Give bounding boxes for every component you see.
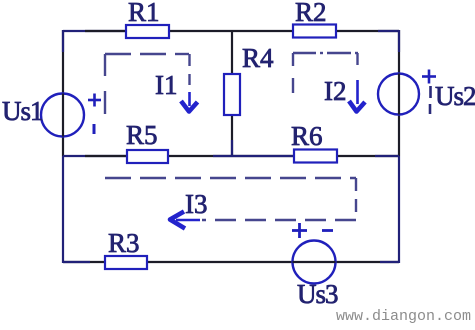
- svg-text:www.diangon.com: www.diangon.com: [336, 308, 471, 325]
- resistor R1: [126, 25, 169, 38]
- polarity minus Us1: [93, 124, 96, 134]
- wire right vertical: [398, 30, 400, 263]
- svg-text:Us3: Us3: [297, 279, 338, 309]
- wire top horizontal: [63, 30, 399, 32]
- wire middle vertical: [231, 31, 233, 156]
- svg-text:R4: R4: [242, 43, 274, 73]
- polarity minus Us2: [429, 86, 432, 114]
- polarity plus Us2: [422, 70, 436, 84]
- svg-text:I3: I3: [185, 189, 208, 219]
- arrow I2: [349, 80, 365, 112]
- resistor R3: [105, 256, 147, 269]
- polarity minus Us3: [322, 229, 333, 232]
- polarity plus Us3: [292, 223, 307, 238]
- source Us1: [41, 94, 84, 137]
- source Us2: [378, 74, 419, 115]
- wire left vertical: [62, 30, 64, 263]
- mesh loop I2 (dash-dot): [293, 53, 358, 93]
- source Us3: [293, 241, 336, 284]
- resistor R2: [293, 25, 336, 38]
- arrow I3: [170, 212, 200, 229]
- polarity plus Us1: [88, 94, 101, 107]
- svg-text:I2: I2: [324, 76, 347, 106]
- svg-text:R6: R6: [291, 121, 323, 151]
- resistor R5: [127, 150, 168, 163]
- resistor R4: [224, 74, 240, 115]
- svg-text:Us1: Us1: [2, 96, 43, 126]
- wire middle horizontal: [63, 155, 399, 157]
- svg-text:Us2: Us2: [435, 81, 475, 111]
- mesh loop I3 (dashed): [105, 178, 356, 220]
- svg-text:R1: R1: [128, 0, 160, 27]
- svg-text:R2: R2: [295, 0, 327, 27]
- svg-text:I1: I1: [155, 70, 178, 100]
- wire bottom horizontal: [63, 261, 399, 263]
- svg-text:R3: R3: [108, 228, 140, 258]
- mesh loop I1 (dashed): [105, 54, 190, 114]
- arrow I1: [181, 92, 198, 112]
- resistor R6: [294, 150, 337, 163]
- svg-text:R5: R5: [126, 120, 158, 150]
